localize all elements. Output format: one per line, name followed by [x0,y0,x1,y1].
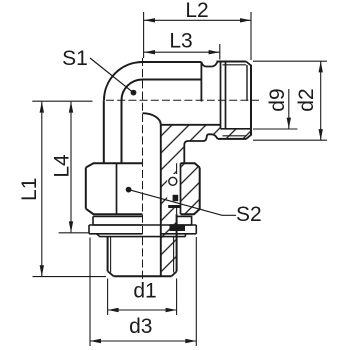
leader dot S1 [131,90,137,96]
svg-text:L4: L4 [51,154,74,178]
body neck inner left [121,100,123,163]
svg-text:S1: S1 [62,47,88,70]
male end chamfer top [246,62,251,66]
svg-text:d3: d3 [129,315,152,338]
stud chamfer right [172,272,177,277]
groove bottom mark [168,205,180,208]
centerline vertical axis [142,58,144,291]
washer B retaining ring [89,225,196,234]
male end chamfer bottom [246,135,251,139]
extension line d2 bottom [253,139,327,141]
seal ring [97,234,186,237]
svg-text:S2: S2 [236,203,262,226]
thread undercut groove top [201,62,217,67]
extension line L3 right [219,44,221,60]
lower external profile undercut mirror [184,134,217,163]
locknut bottom edge [86,209,200,215]
svg-text:d2: d2 [295,88,318,111]
male thread crest top [217,61,247,63]
bore dome curve [143,113,161,125]
stud thread crest right [176,214,178,271]
svg-text:d9: d9 [266,88,289,111]
thread shoulder edge [220,62,222,129]
extension line L2 right [250,12,252,60]
body flats end edge [200,62,202,102]
thread chamfer edge circle [246,65,248,101]
locknut left edge [85,168,87,209]
extension line d3 left [89,238,91,347]
svg-text:L3: L3 [169,29,192,52]
hatch section locknut [181,163,200,214]
thread start edge [225,62,227,129]
leader S2 [129,190,236,216]
dimension L3 [144,50,220,54]
backup ring square [173,195,179,201]
dimension d3 [90,339,196,343]
extension line d2 top [253,60,327,62]
centerline horizontal axis [106,99,259,101]
extension line top left [32,100,92,102]
seat bore line [221,128,252,130]
extension line d3 right [195,237,197,346]
elbow body outer arc [104,62,201,100]
extension line d1 right [176,279,178,316]
extension line L1 bottom [33,276,107,278]
stud end face [114,275,172,277]
dimension d2 [319,61,323,140]
seal pressed ring dark [170,225,186,231]
o-ring pocket whiteout [167,174,177,205]
extension line L4 bottom [59,232,89,234]
extension line d9 [253,128,298,130]
dimension d9 [287,89,291,129]
stud chamfer left [108,271,114,276]
svg-text:L2: L2 [185,0,208,22]
locknut right edge [199,168,201,210]
elbow body inner arc [122,80,202,101]
washer A [93,216,192,225]
dimension L2 [144,18,251,22]
male thread root bottom [223,135,247,137]
vertical bore wall [160,125,162,276]
horizontal bore wall [161,124,221,126]
locknut hex flat divider [116,163,118,214]
male thread crest bottom [218,138,247,140]
hatch section stud wall [161,163,177,276]
svg-text:L1: L1 [18,178,41,201]
dimension L4 [69,102,73,233]
leader dot S2 [126,187,132,193]
extension line d1 left [107,279,109,316]
extension line L2 L3 left [143,12,145,58]
svg-text:d1: d1 [133,280,156,303]
leader S1 [90,58,132,92]
o-ring circle [169,177,177,185]
male end face [250,65,252,136]
stud thread crest left [107,237,109,272]
stud thread root right [173,237,175,273]
stud thread root left [110,237,112,273]
locknut top edge [86,163,200,167]
dimension d1 [108,308,177,312]
stud outer edge in nut zone [176,163,178,174]
body neck outer left [103,100,105,163]
dimension L1 [40,102,44,277]
male thread root top [223,64,247,66]
hatch section horizontal arm wall [161,125,251,163]
locknut inner bore edge [180,163,182,214]
